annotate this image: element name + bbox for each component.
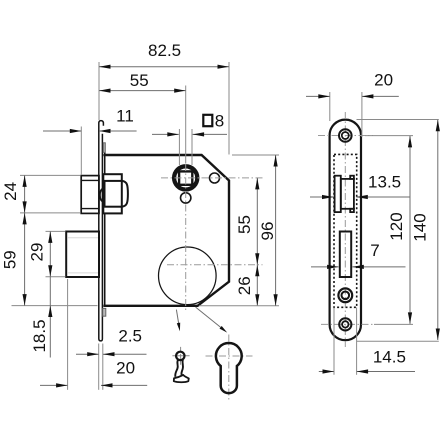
node: middle screw hole: [338, 288, 352, 302]
node: latch bolt front view: [335, 176, 354, 212]
node: top mounting tab: [103, 143, 105, 153]
svg-text:96: 96: [258, 222, 277, 241]
node: dimension square 8: [152, 112, 227, 165]
wire: leader to cylinder symbol: [196, 307, 228, 333]
svg-text:55: 55: [130, 71, 149, 90]
svg-text:120: 120: [387, 212, 406, 240]
node: bottom mounting tab: [103, 308, 106, 316]
node: dimension 96 case height: [199, 155, 279, 306]
svg-text:13.5: 13.5: [368, 173, 401, 192]
node: dimension 29: [28, 231, 66, 276]
svg-text:2.5: 2.5: [118, 326, 142, 345]
node: dimension 14.5 case depth: [319, 308, 415, 375]
node: dimension 55 top: [99, 71, 186, 163]
wire: cylinder axis centerline horizontal: [167, 264, 263, 266]
node: deadbolt head: [66, 232, 99, 278]
svg-text:7: 7: [370, 241, 379, 260]
node: deadbolt front view: [340, 232, 351, 278]
node: bottom screw hole: [321, 318, 374, 330]
svg-text:55: 55: [235, 215, 254, 234]
node: latch bolt head: [81, 176, 99, 214]
node: latch follower mechanism: [100, 174, 128, 213]
svg-text:82.5: 82.5: [148, 41, 181, 60]
svg-text:18.5: 18.5: [30, 319, 49, 352]
wire: hidden case contour dotted: [334, 154, 357, 307]
wire: case front edge: [104, 155, 106, 306]
node: fixing screw hole center: [181, 193, 191, 203]
svg-text:29: 29: [28, 243, 47, 262]
wire: faceplate side view: [99, 121, 105, 341]
wire: vertical centerline through spindle: [185, 164, 187, 311]
svg-text:20: 20: [374, 71, 393, 90]
node: key profile symbol: [172, 347, 189, 382]
wire: plate vertical centerline: [344, 112, 346, 347]
wire: leader to key symbol: [176, 310, 180, 332]
node: euro cylinder profile symbol: [206, 335, 253, 402]
node: dimension 55 vertical spindle to cylinder: [235, 178, 257, 265]
node: dimension 59: [1, 213, 98, 306]
svg-text:8: 8: [215, 112, 224, 131]
node: spindle hub ring: [174, 166, 197, 189]
node: dimension 13.5 latch width: [310, 173, 410, 197]
node: dimension 24: [1, 175, 81, 213]
node: dimension 26: [235, 265, 257, 306]
svg-text:14.5: 14.5: [373, 348, 406, 367]
node: cylinder hole circle: [159, 247, 217, 305]
svg-text:26: 26: [235, 276, 254, 295]
node: dimension 140 plate height: [357, 120, 439, 342]
wire: spindle axis centerline horizontal: [161, 177, 263, 179]
node: dimension 20 deadbolt throw: [40, 279, 147, 390]
svg-text:11: 11: [116, 107, 134, 126]
svg-text:59: 59: [1, 250, 20, 269]
wire: case outline: [103, 155, 229, 306]
svg-text:140: 140: [411, 213, 430, 241]
node: top screw hole: [318, 129, 373, 142]
svg-text:20: 20: [116, 358, 135, 377]
svg-text:24: 24: [1, 182, 20, 201]
node: dimension 82.5: [99, 41, 229, 154]
node: dimension 120 screw distance: [365, 136, 413, 325]
node: striker plate outline front view: [330, 120, 361, 341]
node: dimension 2.5 faceplate thickness: [76, 326, 147, 389]
node: spindle square hole 8mm: [179, 171, 192, 184]
node: dimension 11: [43, 107, 137, 176]
node: dimension 20 plate width: [306, 71, 399, 137]
node: hole top right: [210, 173, 220, 183]
node: dimension 7 deadbolt width: [311, 241, 406, 267]
node: dimension 18.5: [30, 277, 50, 358]
